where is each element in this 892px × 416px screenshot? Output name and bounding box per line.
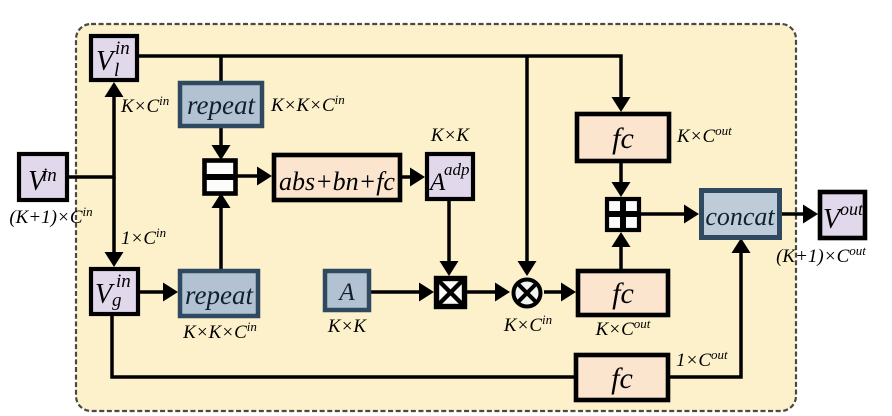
wire concat to V_out with arrow [781,205,818,224]
wire plus box to concat with arrow [641,205,699,224]
svg-text:fc: fc [612,277,634,310]
wire V_g_in to repeat bottom with arrow [140,283,178,302]
box-times (multiply box) [437,279,465,307]
wire box-times to circle-times with arrow [467,283,510,302]
svg-text:V: V [96,46,116,77]
plus box [607,199,639,230]
svg-text:repeat: repeat [187,90,256,120]
wire V_in to split node [69,175,114,179]
wire branch down to repeat top [219,56,223,81]
box fc bottom [576,355,668,400]
svg-text:in: in [116,271,131,292]
arrow into fc top [612,97,631,112]
svg-text:in: in [42,165,57,186]
box V_out [820,192,865,238]
wire A_adp down to box-times with arrow [440,201,459,276]
wire node up to V_l_in with arrow [105,82,124,179]
svg-text:repeat: repeat [185,280,254,310]
svg-text:adp: adp [444,160,470,179]
wire A to box-times with arrow [371,283,434,302]
box V_g_in [91,269,138,314]
wire circle-times to fc middle with arrow [544,283,576,302]
wire node down to V_g_in with arrow [105,177,124,267]
minus box [203,161,237,194]
wire fc middle up to plus box with arrow [612,232,631,269]
wire V_g_in down and right to fc bottom [112,316,574,377]
svg-text:g: g [112,290,122,311]
box A_adp [427,154,473,199]
circle-times (multiply circle) [514,280,541,307]
svg-text:fc: fc [612,122,634,155]
wire repeat top to minus box with arrow [212,128,231,160]
svg-text:K×K×Cin: K×K×Cin [270,92,345,116]
svg-text:out: out [840,199,864,219]
box repeat top [180,83,262,126]
box A [325,271,369,310]
svg-text:l: l [114,60,119,81]
svg-text:K×K×Cin: K×K×Cin [182,319,257,343]
wire fc top down to plus box with arrow [612,163,631,197]
dashed module border [76,24,796,411]
box fc middle [578,271,668,315]
svg-text:A: A [337,279,355,306]
wire minus box to abs+bn+fc with arrow [235,167,272,186]
wire top bus from V_l_in to fc top corner [139,56,621,106]
svg-text:concat: concat [705,202,775,231]
box abs+bn+fc [274,155,400,200]
wire branch down to circle-times with arrow [518,56,537,276]
svg-text:fc: fc [611,362,633,395]
box concat [702,191,780,238]
wire abs+bn+fc to A_adp with arrow [402,168,425,187]
box repeat bottom [180,271,258,316]
box fc top [577,114,669,161]
svg-text:in: in [115,38,130,59]
svg-text:K×K: K×K [430,125,470,146]
box V_in [19,154,67,200]
box V_l_in [91,36,137,81]
wire repeat bottom up to minus box with arrow [212,193,231,269]
svg-text:(K+1)×Cin: (K+1)×Cin [9,204,92,228]
svg-text:K×K: K×K [327,316,367,337]
svg-text:abs+bn+fc: abs+bn+fc [279,167,395,196]
wire fc bottom right and up to concat with arrow [670,238,751,377]
